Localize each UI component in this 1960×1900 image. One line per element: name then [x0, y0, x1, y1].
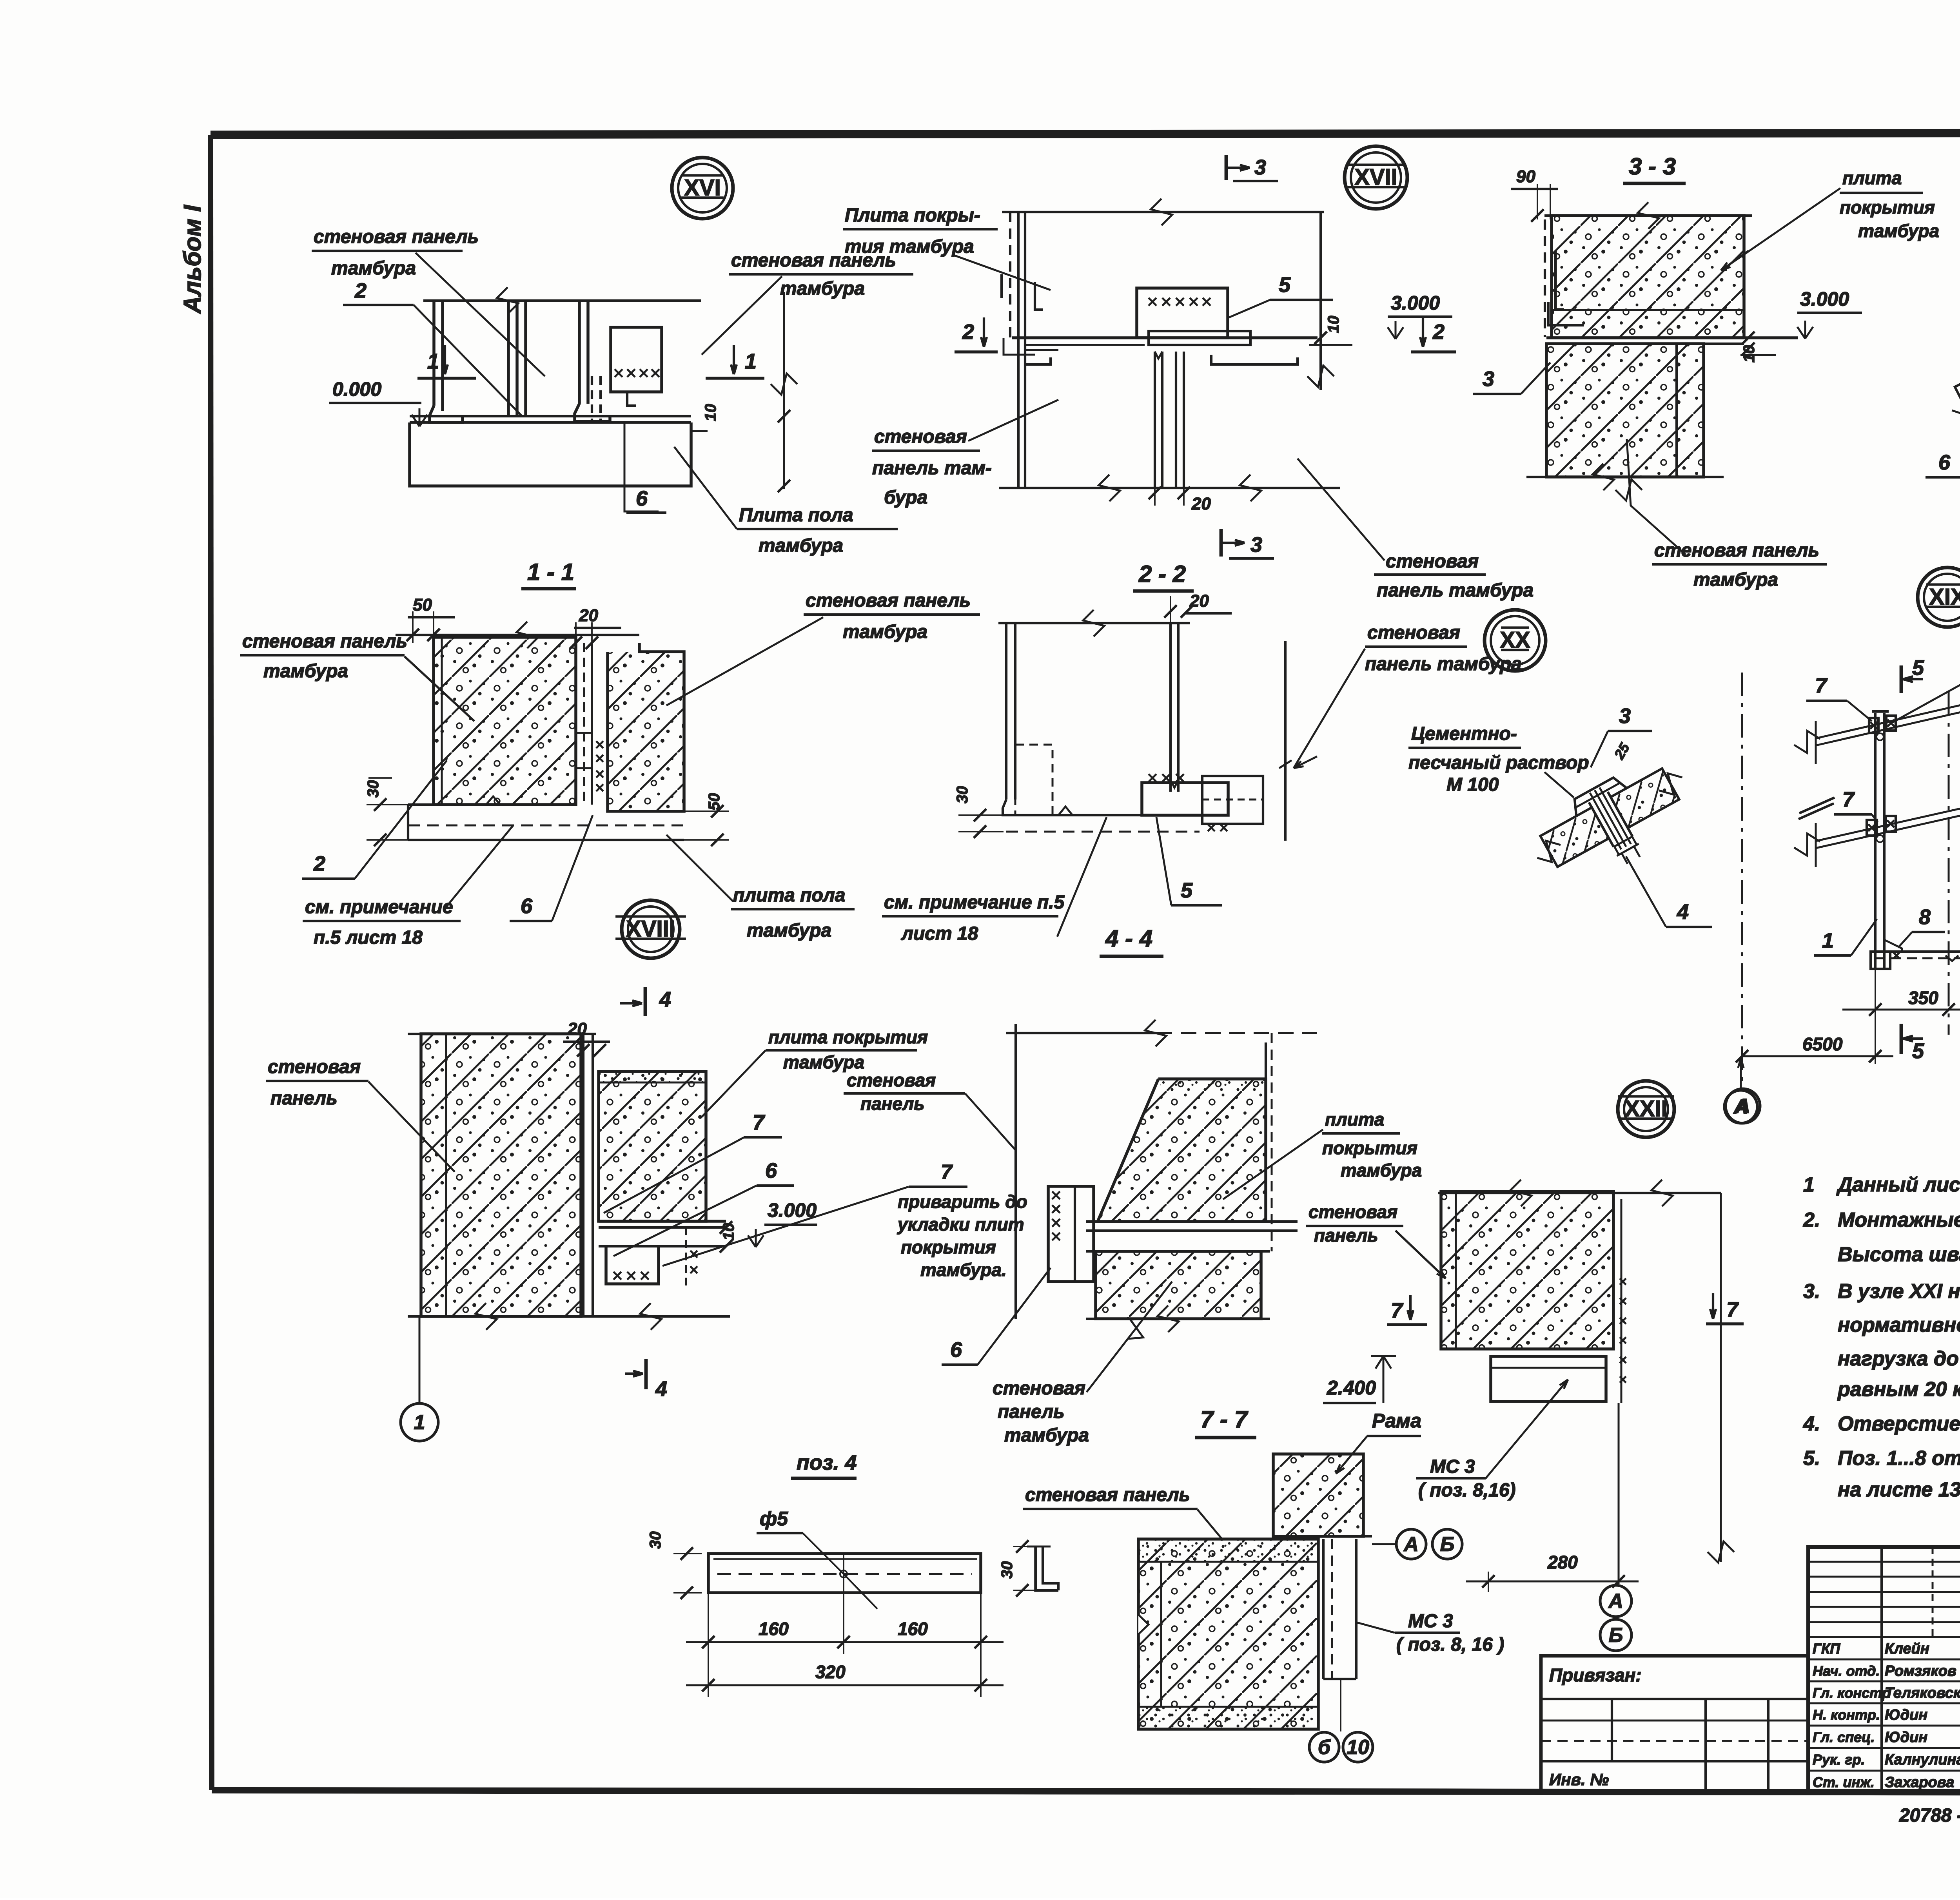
- svg-text:4.: 4.: [1803, 1412, 1820, 1435]
- svg-text:тамбура: тамбура: [783, 1052, 864, 1072]
- node XXII: right break vertical: [1720, 1193, 1722, 1562]
- svg-text:поз. 4: поз. 4: [797, 1451, 857, 1474]
- svg-text:тамбура.: тамбура.: [920, 1260, 1007, 1280]
- node XVIII: MC bracket below slab: [606, 1246, 659, 1284]
- svg-text:30: 30: [365, 780, 382, 798]
- node XIX: clamps at wire crossings: [1869, 718, 1878, 733]
- svg-text:Теляковский: Теляковский: [1885, 1685, 1960, 1701]
- node XXII: joint verticals with welds: [1612, 1191, 1615, 1349]
- svg-text:стеновая: стеновая: [1386, 551, 1479, 572]
- svg-text:7: 7: [941, 1161, 953, 1184]
- view 4-4: left bottom L-step: [1003, 800, 1035, 815]
- svg-text:А: А: [1733, 1096, 1748, 1119]
- svg-text:5: 5: [1912, 656, 1924, 680]
- svg-text:20: 20: [1191, 494, 1211, 513]
- svg-text:плита: плита: [1842, 168, 1902, 188]
- frame corner: notch in left edge: [1138, 1615, 1149, 1634]
- svg-text:3.: 3.: [1803, 1280, 1820, 1303]
- svg-text:Рук. гр.: Рук. гр.: [1813, 1751, 1865, 1768]
- svg-text:320: 320: [815, 1662, 846, 1682]
- node XVIII: axis line to circle 1: [419, 1316, 421, 1403]
- svg-text:стеновая панель: стеновая панель: [314, 227, 479, 247]
- svg-text:5: 5: [1912, 1039, 1924, 1063]
- svg-text:160: 160: [759, 1619, 789, 1639]
- svg-text:плита: плита: [1325, 1109, 1384, 1129]
- detail circle XXII: [1618, 1081, 1674, 1137]
- pos.4: hole: [840, 1570, 847, 1577]
- svg-text:7: 7: [1815, 674, 1828, 698]
- detail circle XIX: [1918, 567, 1960, 627]
- svg-text:Цементно-: Цементно-: [1411, 723, 1517, 744]
- view 3-3: steel angle at left: [1555, 251, 1564, 310]
- view 1-1: floor slab: [410, 422, 691, 486]
- svg-text:2.: 2.: [1803, 1209, 1820, 1231]
- node XVIII: roof slab hatched (right): [599, 1071, 706, 1221]
- svg-text:тамбура: тамбура: [1341, 1160, 1422, 1180]
- svg-text:равным 20 кг.: равным 20 кг.: [1837, 1378, 1960, 1401]
- node XIX: post feet: [1871, 952, 1890, 969]
- view 2-2: parapet angle: [1035, 282, 1043, 310]
- svg-text:20: 20: [579, 606, 598, 625]
- frame corner: circles б 10 below: [1340, 1679, 1341, 1731]
- view 1-1: right cut line with dim 10: [783, 292, 785, 489]
- svg-text:7 - 7: 7 - 7: [1200, 1406, 1249, 1432]
- node XVIII: wall panel big hatched: [421, 1034, 581, 1316]
- svg-text:Клейн: Клейн: [1885, 1641, 1929, 1657]
- node XIX: bottom chord: [1875, 950, 1960, 953]
- svg-text:XX: XX: [1500, 627, 1530, 653]
- view 7-7: top edge: [1006, 1032, 1156, 1034]
- svg-text:стеновая: стеновая: [1367, 622, 1460, 643]
- pos.4: dim 320: [686, 1684, 1004, 1686]
- view 1-1: anchor tick: [627, 392, 636, 406]
- frame corner: MC3 strip right: [1322, 1539, 1325, 1679]
- svg-text:10: 10: [1347, 1736, 1369, 1759]
- axis circle 1: [401, 1403, 438, 1441]
- svg-text:тамбура: тамбура: [263, 661, 348, 682]
- svg-text:Н. контр.: Н. контр.: [1813, 1707, 1880, 1723]
- axis circle A: [1726, 1089, 1760, 1123]
- svg-text:Захарова: Захарова: [1885, 1774, 1954, 1791]
- view 3-3: slab soffit lines: [1546, 336, 1798, 339]
- view 3-3: wall panel hatched block: [1546, 344, 1704, 477]
- title block outer: [1808, 1547, 1960, 1793]
- svg-text:Б: Б: [1440, 1533, 1455, 1556]
- svg-text:6: 6: [521, 894, 533, 918]
- svg-text:1: 1: [1822, 929, 1834, 952]
- svg-text:Альбом I: Альбом I: [179, 204, 206, 314]
- svg-text:плита покрытия: плита покрытия: [768, 1027, 928, 1047]
- svg-text:0.000: 0.000: [332, 378, 381, 400]
- node XIX: bolt dots: [1877, 733, 1884, 740]
- view 3-3: roof slab hatched block: [1552, 216, 1744, 338]
- node XVIII: joint verticals: [582, 1034, 584, 1316]
- svg-text:2.400: 2.400: [1327, 1377, 1376, 1399]
- svg-text:7: 7: [1726, 1298, 1739, 1322]
- node XIX: dim 6500: [1742, 1055, 1893, 1057]
- node XXII: axis circles А Б: [1600, 1585, 1632, 1617]
- svg-text:6500: 6500: [1802, 1034, 1843, 1054]
- svg-text:4: 4: [655, 1377, 667, 1401]
- svg-text:30: 30: [954, 786, 971, 804]
- node XIX: wire left break marks: [1815, 721, 1817, 764]
- svg-text:Ромзяков: Ромзяков: [1885, 1663, 1956, 1679]
- svg-text:1: 1: [414, 1411, 425, 1434]
- svg-text:нормативной массой до 190 кг: нормативной массой до 190 кг. На поз. 3 …: [1838, 1314, 1960, 1336]
- view 4-4: corner block dashed: [1015, 745, 1053, 815]
- pos.4: bar plate: [708, 1554, 981, 1593]
- pos.4: dims 160/160: [708, 1593, 709, 1654]
- svg-text:Нач. отд.: Нач. отд.: [1813, 1663, 1880, 1679]
- svg-text:тамбура: тамбура: [1858, 221, 1939, 241]
- node XIX: top wire pair: [1816, 679, 1960, 738]
- view 7-7: wall panel below hatched: [1096, 1251, 1261, 1319]
- svg-text:покрытия: покрытия: [901, 1237, 996, 1257]
- svg-text:4 - 4: 4 - 4: [1105, 925, 1152, 952]
- svg-text:бура: бура: [884, 487, 927, 508]
- svg-text:МС 3: МС 3: [1408, 1611, 1453, 1632]
- svg-text:Инв. №: Инв. №: [1549, 1770, 1609, 1789]
- svg-text:5: 5: [1181, 879, 1193, 902]
- view 3-3: wall bottom break line: [1526, 476, 1724, 478]
- svg-text:280: 280: [1547, 1552, 1578, 1572]
- svg-text:20788 - 0: 20788 - 0: [1899, 1805, 1960, 1826]
- detail circle XVI: [672, 158, 733, 219]
- node XXII: wall panel hatched: [1441, 1191, 1613, 1349]
- svg-text:3.000: 3.000: [1800, 288, 1849, 310]
- svg-text:4: 4: [1677, 900, 1689, 924]
- svg-text:стеновая панель: стеновая панель: [806, 590, 971, 611]
- frame corner: axis circles А Б right: [1372, 1543, 1396, 1545]
- svg-text:ГКП: ГКП: [1813, 1641, 1840, 1657]
- svg-text:50: 50: [413, 595, 432, 615]
- svg-text:панель: панель: [270, 1088, 338, 1109]
- view 1-1: weld x marks: [615, 369, 622, 377]
- svg-text:панель: панель: [998, 1401, 1065, 1422]
- view 1-1: column box (стакан): [611, 327, 662, 392]
- view 4-4: right vertical: [1284, 641, 1287, 841]
- view 1-1: leader to wall panel: [416, 253, 545, 376]
- svg-text:( поз. 8,16): ( поз. 8,16): [1418, 1480, 1516, 1501]
- detail circle XX: [1485, 610, 1546, 671]
- view 2-2: roof slab level lines: [1012, 336, 1318, 339]
- view 4-4: left wall verticals: [1005, 623, 1007, 800]
- view 4-4: side plate block: [1202, 776, 1263, 824]
- svg-text:7: 7: [1391, 1299, 1404, 1322]
- svg-text:песчаный раствор: песчаный раствор: [1408, 752, 1589, 773]
- view 4-4: top edge line: [998, 622, 1190, 624]
- svg-text:Юдин: Юдин: [1885, 1729, 1927, 1746]
- svg-text:4: 4: [659, 988, 671, 1011]
- view 4-4: embed plate with welds: [1142, 783, 1228, 815]
- node XIX: left post: [1874, 713, 1877, 969]
- plan XVI: notch mark in floor: [486, 796, 500, 805]
- svg-text:панель тамбура: панель тамбура: [1377, 580, 1534, 601]
- svg-text:3: 3: [1483, 367, 1494, 391]
- svg-text:2: 2: [354, 279, 367, 303]
- svg-text:на листе 13.: на листе 13.: [1838, 1478, 1960, 1501]
- svg-text:стеновая панель: стеновая панель: [1654, 540, 1819, 561]
- svg-text:Плита пола: Плита пола: [739, 505, 853, 526]
- node XVIII: section mark 4 bottom: [644, 1359, 648, 1389]
- svg-text:б: б: [1318, 1736, 1331, 1759]
- svg-text:Монтажные швы выполнять эле: Монтажные швы выполнять электродами Э42 …: [1838, 1209, 1960, 1231]
- svg-text:Плита покры-: Плита покры-: [845, 205, 980, 226]
- svg-text:Данный лист смотреть совместн: Данный лист смотреть совместно с листами…: [1836, 1173, 1960, 1196]
- node XIX: corner angles: [1884, 940, 1902, 952]
- view 7-7: slab bearing plates: [1086, 1220, 1298, 1223]
- svg-text:панель: панель: [1314, 1225, 1378, 1246]
- svg-text:3: 3: [1250, 533, 1262, 557]
- svg-text:10: 10: [702, 404, 719, 422]
- svg-text:3.000: 3.000: [1391, 292, 1440, 314]
- frame corner: wall panel hatched: [1138, 1539, 1318, 1729]
- plan XVI: bottom floor lines: [408, 803, 576, 806]
- title block: thin upper rows: [1808, 1561, 1960, 1563]
- svg-text:6: 6: [636, 487, 648, 510]
- view 2-2: top edge line: [1002, 211, 1324, 213]
- view 2-2: lower wall brackets: [1025, 357, 1051, 364]
- view 4-4: bottom dashed line: [1006, 831, 1200, 833]
- svg-text:стеновая: стеновая: [847, 1070, 936, 1090]
- svg-text:6: 6: [765, 1159, 777, 1182]
- view 2-2: left wall dashed + solid verticals: [1009, 212, 1011, 341]
- svg-text:1 - 1: 1 - 1: [527, 559, 574, 585]
- node XVIII: top edge: [408, 1033, 596, 1035]
- svg-text:плита пола: плита пола: [733, 885, 845, 906]
- view 7-7: embed with welds left: [1048, 1186, 1094, 1282]
- svg-text:7: 7: [753, 1111, 766, 1134]
- svg-text:2: 2: [962, 320, 974, 344]
- view 1-1: floor plate lines: [410, 415, 691, 417]
- svg-text:XVI: XVI: [684, 175, 721, 201]
- view 7-7: dashed right edges: [1271, 1033, 1273, 1251]
- svg-text:М 100: М 100: [1446, 774, 1499, 795]
- svg-text:см. примечание п.5: см. примечание п.5: [884, 892, 1065, 913]
- svg-text:стеновая панель: стеновая панель: [1025, 1485, 1190, 1505]
- svg-text:7: 7: [1842, 788, 1855, 811]
- node XVIII: joint welds: [690, 1251, 697, 1258]
- plan XVI: joint verticals: [583, 643, 585, 805]
- svg-text:тамбура: тамбура: [331, 258, 416, 279]
- svg-text:XIX: XIX: [1929, 584, 1960, 610]
- svg-text:тамбура: тамбура: [780, 278, 865, 299]
- svg-text:покрытия: покрытия: [1840, 197, 1935, 218]
- svg-text:Б: Б: [1609, 1624, 1623, 1647]
- svg-text:тамбура: тамбура: [843, 622, 927, 642]
- view 2-2: embed plate box with welds: [1137, 288, 1228, 338]
- svg-text:лист 18: лист 18: [901, 923, 978, 944]
- svg-text:Калнулина: Калнулина: [1885, 1751, 1960, 1768]
- svg-text:стеновая: стеновая: [268, 1057, 361, 1077]
- svg-text:панель там-: панель там-: [872, 458, 992, 479]
- svg-text:МС 3: МС 3: [1430, 1456, 1475, 1477]
- view 2-2: wall panel below verticals: [1154, 352, 1156, 488]
- view 1-1: leader line pos 6: [624, 422, 659, 511]
- node XXII: MC3 bracket: [1491, 1356, 1606, 1401]
- plan XVI: top edge line: [396, 634, 639, 636]
- svg-text:6: 6: [950, 1338, 962, 1362]
- view 7-7: left wall line: [1014, 1024, 1017, 1319]
- frame corner: upper hatched block: [1273, 1454, 1363, 1536]
- view 2-2: section mark 3 top: [1225, 155, 1228, 180]
- svg-text:90: 90: [1516, 167, 1535, 186]
- svg-text:укладки плит: укладки плит: [897, 1214, 1024, 1235]
- node XIX: axis dash-dot line A: [1741, 673, 1743, 1089]
- svg-text:XXII: XXII: [1624, 1096, 1668, 1122]
- svg-text:( поз. 8, 16 ): ( поз. 8, 16 ): [1396, 1634, 1504, 1655]
- node XIX: bottom dims 350/350: [1875, 969, 1876, 1064]
- svg-text:Поз. 1...8 относящиеся к уз: Поз. 1...8 относящиеся к узлам XIX.. XX …: [1838, 1447, 1960, 1470]
- svg-text:5.: 5.: [1803, 1447, 1820, 1470]
- svg-text:покрытия: покрытия: [1322, 1138, 1417, 1158]
- node XXI rotated joint: [1936, 298, 1960, 460]
- detail circle XVII: [1345, 146, 1407, 209]
- svg-text:6: 6: [1938, 451, 1951, 474]
- view 3-3: roof slab top edge break: [1544, 214, 1752, 217]
- plan XVI: right wall panel hatched: [608, 643, 684, 811]
- svg-text:стеновая панель: стеновая панель: [242, 631, 407, 652]
- svg-text:панель: панель: [860, 1093, 925, 1114]
- svg-text:тамбура: тамбура: [1693, 569, 1778, 590]
- node XXII: top edge: [1438, 1192, 1721, 1194]
- svg-text:3: 3: [1619, 704, 1631, 728]
- view 2-2: right vertical edge: [1319, 212, 1322, 390]
- svg-text:тамбура: тамбура: [747, 920, 831, 941]
- angle bracket detail: [1036, 1546, 1058, 1590]
- frame corner: joint at top: [1318, 1535, 1372, 1537]
- svg-text:тамбура: тамбура: [1004, 1425, 1089, 1446]
- svg-text:8: 8: [1919, 905, 1931, 929]
- svg-text:Рама: Рама: [1372, 1410, 1421, 1432]
- svg-text:А: А: [1403, 1533, 1419, 1556]
- svg-text:5: 5: [1279, 273, 1291, 297]
- svg-text:Отверстие в поз. 4 ( узел XX: Отверстие в поз. 4 ( узел XX)сверлить по…: [1838, 1412, 1960, 1435]
- view 1-1: wall panel verticals: [432, 301, 436, 406]
- detail circle XVIII: [622, 900, 680, 958]
- node XXII: vertical continuation: [1618, 1403, 1620, 1584]
- svg-text:3 - 3: 3 - 3: [1629, 153, 1676, 179]
- view 1-1: top edge of wall panels: [423, 299, 701, 302]
- svg-text:30: 30: [647, 1532, 664, 1549]
- plan XVI: left wall panel hatched: [434, 637, 576, 805]
- title block: signature table verticals: [1880, 1547, 1883, 1793]
- svg-text:Высота шва Δшв. = 6 мм.: Высота шва Δшв. = 6 мм.: [1838, 1243, 1960, 1266]
- view 7-7: bottom edge: [1086, 1318, 1270, 1320]
- node XIX: section mark 5 bottom: [1900, 1024, 1903, 1054]
- node XIX: section mark 5 top: [1900, 665, 1903, 693]
- svg-text:1: 1: [1803, 1173, 1815, 1196]
- node XIX: center axis dash-dot: [1948, 692, 1950, 1035]
- привязан block: [1541, 1656, 1808, 1793]
- svg-text:XVIII: XVIII: [626, 916, 675, 942]
- svg-text:Юдин: Юдин: [1885, 1707, 1927, 1723]
- node XVIII: slab soffit plates: [599, 1220, 726, 1223]
- view 2-2: section mark 3 bottom: [1220, 529, 1223, 557]
- svg-text:п.5 лист 18: п.5 лист 18: [314, 927, 423, 948]
- svg-text:XVII: XVII: [1354, 165, 1397, 190]
- svg-text:приварить до: приварить до: [898, 1191, 1027, 1212]
- svg-text:см. примечание: см. примечание: [305, 897, 453, 917]
- svg-text:Привязан:: Привязан:: [1549, 1665, 1642, 1685]
- svg-text:ф5: ф5: [760, 1508, 788, 1530]
- svg-text:350: 350: [1908, 988, 1938, 1008]
- svg-text:1: 1: [745, 350, 757, 373]
- title block: name rows: [1808, 1659, 1960, 1661]
- svg-text:30: 30: [998, 1561, 1016, 1579]
- svg-text:стеновая: стеновая: [1308, 1202, 1397, 1222]
- view 3-3: left dashed edge: [1544, 219, 1546, 337]
- node XIX: mid wire pair: [1816, 783, 1960, 841]
- sheet border frame: [211, 132, 1960, 135]
- svg-text:Гл. спец.: Гл. спец.: [1813, 1729, 1875, 1745]
- svg-text:тамбура: тамбура: [759, 535, 843, 556]
- svg-text:Гл. констр: Гл. констр: [1813, 1685, 1891, 1701]
- svg-text:В узле XXI на поз 5 предусм: В узле XXI на поз 5 предусмотрена нагруз…: [1838, 1280, 1960, 1303]
- svg-text:стеновая: стеновая: [993, 1378, 1085, 1399]
- view 4-4: mid verticals: [1169, 623, 1172, 792]
- svg-text:2 - 2: 2 - 2: [1138, 561, 1186, 587]
- svg-text:3: 3: [1254, 156, 1266, 179]
- view 7-7: roof slab trapezoid hatched: [1098, 1079, 1266, 1222]
- svg-text:тия тамбура: тия тамбура: [845, 236, 974, 257]
- view 2-2: bottom break line: [999, 487, 1340, 489]
- svg-text:160: 160: [898, 1619, 928, 1639]
- node XX: rotated joint: [1521, 748, 1706, 901]
- node XXII: axis mark A top: [1740, 1058, 1742, 1086]
- svg-text:2: 2: [313, 852, 325, 876]
- node XVIII: section mark 4 top: [644, 987, 647, 1016]
- svg-text:10: 10: [1325, 316, 1342, 334]
- svg-text:2: 2: [1432, 320, 1445, 344]
- view 1-1: grout dashes: [591, 376, 593, 421]
- node XVIII: wall bottom edge: [408, 1315, 730, 1318]
- svg-text:стеновая: стеновая: [874, 426, 967, 447]
- svg-text:нагрузка до 100 кг. Натяжение: нагрузка до 100 кг. Натяжение на рамки п…: [1838, 1347, 1960, 1370]
- svg-text:Ст. инж.: Ст. инж.: [1813, 1774, 1875, 1790]
- svg-text:А: А: [1608, 1590, 1623, 1613]
